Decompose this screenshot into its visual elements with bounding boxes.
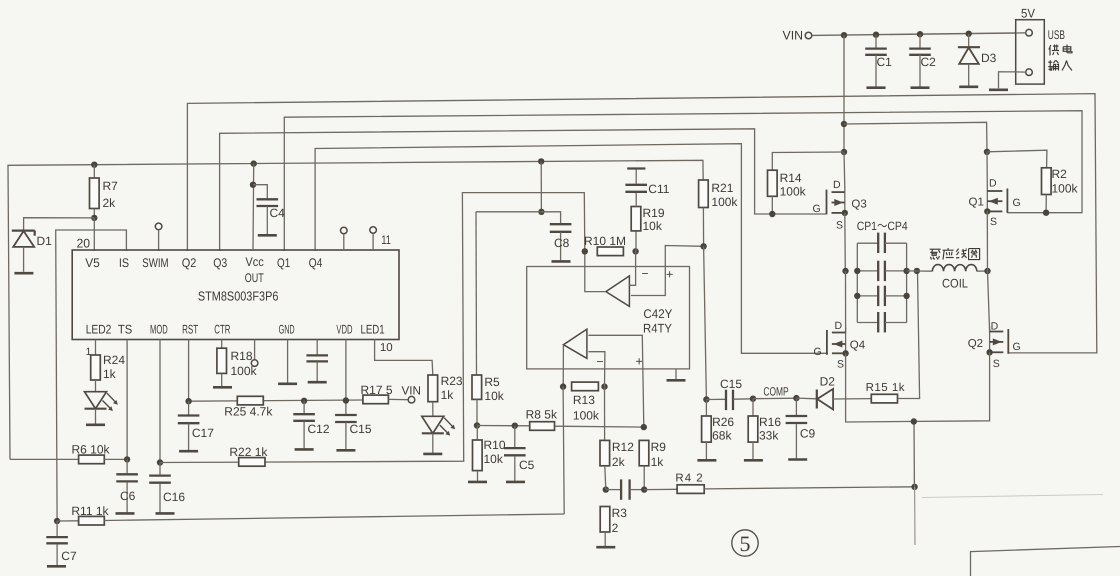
- wire V5 rail: [8, 160, 703, 459]
- wire S rail: [846, 352, 990, 422]
- wire: [104, 514, 564, 521]
- wire: [988, 271, 990, 332]
- svg-text:R2: R2: [1052, 167, 1068, 181]
- svg-text:R8 5k: R8 5k: [526, 408, 558, 422]
- svg-text:LED1: LED1: [361, 323, 385, 337]
- capacitor C15b: [706, 398, 726, 400]
- wire V5 pin: [93, 218, 95, 251]
- resistor R6: [10, 458, 79, 460]
- terminal pin: [254, 340, 256, 360]
- capacitor C15: [345, 401, 347, 415]
- svg-text:Q4: Q4: [309, 256, 323, 270]
- wire: [987, 270, 990, 272]
- capacitor C7: [56, 521, 58, 536]
- junction: [124, 456, 130, 462]
- svg-text:D: D: [991, 321, 999, 333]
- svg-text:20: 20: [77, 237, 91, 251]
- wire noninv2: [588, 335, 643, 427]
- junction: [632, 248, 638, 254]
- svg-text:C16: C16: [163, 490, 185, 504]
- junction: [641, 486, 647, 492]
- resistor R22: [239, 458, 265, 467]
- junction: [560, 383, 566, 389]
- wire VDD pin: [345, 340, 347, 401]
- wire: [772, 152, 844, 170]
- svg-text:RST: RST: [182, 323, 198, 337]
- junction: [841, 149, 847, 155]
- junction: [185, 398, 191, 404]
- junction: [91, 215, 97, 221]
- transistor Q1: [986, 186, 988, 211]
- junction: [538, 209, 544, 215]
- junction: [769, 211, 775, 217]
- svg-text:C5: C5: [519, 458, 535, 472]
- diode D3: [968, 34, 970, 47]
- svg-text:STM8S003F3P6: STM8S003F3P6: [198, 289, 279, 304]
- svg-text:+: +: [636, 355, 643, 369]
- resistor R5: [472, 375, 482, 399]
- wire cap bank right rail: [906, 243, 908, 322]
- diode D2: [796, 397, 816, 400]
- transistor Q2: [989, 327, 991, 353]
- junction: [512, 423, 518, 429]
- svg-text:1k: 1k: [651, 455, 665, 469]
- ground: [596, 546, 615, 549]
- svg-text:R10: R10: [484, 438, 506, 452]
- junction: [911, 484, 917, 490]
- ground: [258, 234, 277, 237]
- ground: [308, 381, 327, 384]
- capacitor C6: [126, 459, 128, 473]
- capacitor C17: [188, 401, 190, 414]
- svg-text:R9: R9: [651, 440, 667, 454]
- wire TS pin: [126, 340, 128, 460]
- capacitor C1: [875, 35, 877, 48]
- resistor R3: [600, 507, 610, 533]
- svg-text:C9: C9: [800, 427, 816, 441]
- pin terminal: [1026, 69, 1033, 76]
- junction: [54, 518, 60, 524]
- svg-text:OUT: OUT: [245, 271, 264, 285]
- wire: [432, 433, 434, 453]
- junction: [91, 162, 97, 168]
- svg-text:−: −: [642, 267, 649, 281]
- pin terminal: [1026, 29, 1033, 36]
- junction: [841, 32, 847, 38]
- wire frame corner: [971, 547, 1120, 576]
- wire: [843, 152, 846, 188]
- svg-text:VDD: VDD: [336, 323, 352, 337]
- label 供电: [1049, 45, 1059, 56]
- svg-text:100k: 100k: [711, 195, 738, 209]
- resistor R25: [237, 396, 263, 405]
- wire R25 rail: [189, 400, 363, 401]
- ground: [116, 512, 135, 515]
- wire R12 top: [604, 387, 606, 441]
- junction: [903, 293, 909, 299]
- wire: [95, 409, 97, 424]
- wire VIN rail: [812, 33, 1016, 35]
- ground: [468, 481, 487, 484]
- svg-text:R6 10k: R6 10k: [72, 443, 111, 457]
- svg-text:CP1～CP4: CP1～CP4: [857, 219, 908, 233]
- terminal pin: [341, 227, 348, 234]
- wire Q1 gate rail: [284, 111, 1082, 251]
- svg-text:TS: TS: [118, 323, 132, 337]
- svg-text:R5: R5: [484, 375, 500, 389]
- ground: [867, 86, 886, 89]
- svg-text:10k: 10k: [484, 452, 504, 466]
- capacitor C4: [253, 185, 267, 199]
- junction: [474, 422, 480, 428]
- junction: [966, 31, 972, 37]
- wire: [987, 150, 1047, 168]
- resistor R23: [428, 375, 438, 402]
- terminal VIN2: [408, 396, 415, 403]
- capacitor CP3: [857, 295, 878, 297]
- wire: [844, 213, 847, 271]
- junction: [703, 396, 709, 402]
- ground: [788, 458, 807, 461]
- terminal SWIM pin: [155, 223, 162, 230]
- ground: [156, 512, 175, 515]
- wire: [999, 72, 1016, 89]
- wire noninv input: [631, 246, 704, 296]
- diode D1 zener: [12, 230, 35, 232]
- svg-text:VIN: VIN: [783, 29, 804, 43]
- svg-text:R22 1k: R22 1k: [229, 445, 268, 459]
- resistor R15: [871, 394, 897, 403]
- label 感应线圈: [930, 249, 941, 259]
- wire faint: [922, 495, 1103, 498]
- junction: [343, 397, 349, 403]
- ground: [86, 423, 105, 426]
- junction: [157, 459, 163, 465]
- svg-text:R19: R19: [643, 206, 665, 220]
- svg-text:2k: 2k: [103, 196, 117, 210]
- ground: [697, 459, 716, 462]
- svg-text:10: 10: [380, 342, 393, 354]
- capacitor C8: [550, 223, 572, 225]
- svg-text:G: G: [814, 346, 822, 358]
- ground: [744, 459, 763, 462]
- wire: [986, 152, 988, 186]
- svg-text:MOD: MOD: [150, 323, 168, 337]
- wire IS pin: [56, 230, 127, 521]
- wire cap bank left rail: [856, 243, 858, 322]
- resistor R7: [93, 165, 95, 178]
- svg-text:100k: 100k: [780, 185, 807, 199]
- resistor R9: [639, 440, 649, 465]
- wire: [907, 270, 917, 272]
- capacitor C12: [303, 401, 305, 414]
- junction: [917, 31, 923, 37]
- ground: [959, 86, 978, 89]
- wire Q3 gate rail: [220, 129, 826, 251]
- wire: [845, 271, 847, 333]
- wire: [986, 211, 988, 271]
- inductor COIL: [917, 270, 933, 272]
- svg-text:Q1: Q1: [969, 197, 984, 209]
- resistor R19: [635, 231, 637, 251]
- ground: [911, 86, 930, 89]
- junction: [914, 268, 920, 274]
- op-amp U2B: [563, 329, 587, 358]
- junction: [842, 268, 848, 274]
- svg-text:S: S: [836, 220, 843, 232]
- svg-text:USB: USB: [1048, 28, 1065, 42]
- resistor R8: [530, 422, 555, 431]
- svg-text:C42Y: C42Y: [643, 307, 673, 321]
- resistor R17: [363, 395, 389, 404]
- junction: [841, 121, 847, 127]
- svg-text:R17 5: R17 5: [361, 383, 393, 397]
- wire: [704, 246, 707, 399]
- resistor R13: [572, 382, 599, 391]
- svg-text:R7: R7: [103, 179, 119, 193]
- svg-text:D: D: [989, 178, 997, 190]
- label circled 5: [732, 530, 758, 556]
- junction: [250, 182, 256, 188]
- junction: [854, 268, 860, 274]
- resistor R10a: [597, 247, 623, 256]
- svg-text:R10 1M: R10 1M: [584, 234, 626, 248]
- svg-text:Q2: Q2: [968, 338, 983, 350]
- svg-text:C6: C6: [120, 489, 136, 503]
- junction: [873, 32, 879, 38]
- capacitor C5: [514, 426, 516, 448]
- svg-text:2: 2: [612, 521, 619, 535]
- capacitor CP2: [857, 270, 878, 272]
- wire LED1 pin: [375, 340, 433, 376]
- capacitor C13: [606, 489, 621, 491]
- svg-text:11: 11: [381, 233, 391, 247]
- svg-text:−: −: [597, 355, 604, 369]
- svg-text:C1: C1: [877, 55, 893, 69]
- resistor R12: [600, 440, 610, 465]
- svg-text:C12: C12: [308, 422, 330, 436]
- ground: [47, 565, 66, 568]
- resistor R2: [1042, 168, 1052, 195]
- junction: [984, 268, 990, 274]
- svg-text:C8: C8: [554, 236, 570, 250]
- LED LED2: [85, 392, 107, 409]
- wire: [24, 218, 95, 231]
- svg-text:10k: 10k: [643, 219, 663, 233]
- wire MOD pin: [159, 340, 161, 463]
- svg-text:R3: R3: [612, 506, 628, 520]
- LED LED1: [422, 416, 444, 433]
- svg-text:Q4: Q4: [850, 340, 866, 352]
- svg-text:IS: IS: [119, 256, 129, 270]
- connector USB box: [1016, 20, 1045, 84]
- svg-text:COIL: COIL: [942, 277, 968, 291]
- wire GND pin: [287, 340, 289, 383]
- svg-text:LED2: LED2: [86, 323, 112, 337]
- wire C8 node: [540, 161, 542, 211]
- svg-text:R16: R16: [759, 415, 781, 429]
- wire: [605, 466, 606, 490]
- wire inv2: [588, 352, 605, 387]
- svg-text:G: G: [1013, 197, 1021, 209]
- svg-text:COMP: COMP: [763, 385, 788, 399]
- svg-text:R11 1k: R11 1k: [71, 504, 109, 518]
- svg-text:Q1: Q1: [277, 256, 290, 270]
- wire R8 rail: [477, 425, 530, 427]
- svg-text:V5: V5: [85, 256, 100, 270]
- junction: [601, 383, 607, 389]
- svg-text:R4TY: R4TY: [643, 322, 673, 336]
- transistor Q4: [845, 328, 847, 354]
- capacitor C11: [625, 184, 647, 186]
- ground: [14, 272, 33, 275]
- label 输入: [1048, 60, 1058, 71]
- capacitor C9: [795, 398, 797, 415]
- svg-text:D1: D1: [37, 234, 53, 248]
- wire: [898, 272, 920, 399]
- ground: [278, 382, 297, 385]
- ground: [423, 453, 442, 456]
- ground: [552, 260, 571, 263]
- wire R22 rail: [160, 193, 585, 463]
- resistor R4: [677, 485, 704, 494]
- junction: [700, 243, 706, 249]
- svg-text:CTR: CTR: [214, 323, 230, 337]
- svg-text:100k: 100k: [1052, 182, 1079, 196]
- svg-text:R21: R21: [711, 181, 733, 195]
- svg-text:Vcc: Vcc: [245, 255, 263, 269]
- transistor Q3: [844, 187, 846, 213]
- junction: [1043, 210, 1049, 216]
- wire opamp1 out: [585, 251, 606, 291]
- junction: [750, 396, 756, 402]
- wire: [476, 212, 561, 224]
- svg-text:10k: 10k: [484, 389, 504, 403]
- svg-text:R26: R26: [712, 415, 734, 429]
- ground: [989, 89, 1008, 92]
- junction: [582, 248, 588, 254]
- IC U1 STM8S003F3P6 body: [72, 250, 399, 340]
- wire R5 drop: [475, 212, 478, 375]
- svg-text:D3: D3: [981, 51, 997, 65]
- svg-text:2k: 2k: [612, 455, 626, 469]
- junction: [641, 424, 647, 430]
- svg-text:G: G: [1013, 341, 1021, 353]
- wire Vcc pin: [252, 164, 255, 251]
- svg-text:R14: R14: [780, 171, 802, 185]
- wire out to R11 rail: [563, 387, 564, 514]
- capacitor C16: [159, 463, 161, 475]
- ground: [179, 450, 198, 453]
- wire opamp2 out: [562, 345, 564, 387]
- wire Q4 gate rail: [315, 144, 828, 354]
- resistor R21: [699, 180, 709, 208]
- svg-text:S: S: [993, 358, 1000, 370]
- wire left leg: [843, 35, 845, 152]
- svg-text:+: +: [666, 268, 673, 282]
- resistor R18: [221, 340, 223, 349]
- ground: [336, 449, 355, 452]
- svg-text:Q2: Q2: [182, 256, 197, 270]
- svg-text:5V: 5V: [1021, 7, 1036, 21]
- ground: [675, 369, 677, 379]
- svg-text:G: G: [813, 203, 821, 215]
- svg-text:VIN: VIN: [402, 384, 422, 398]
- capacitor CP1: [857, 242, 878, 244]
- svg-text:C7: C7: [61, 549, 77, 563]
- junction: [301, 398, 307, 404]
- svg-text:D: D: [833, 179, 841, 191]
- resistor R14: [768, 170, 778, 196]
- junction: [903, 268, 909, 274]
- wire R11 rail: [57, 520, 79, 522]
- svg-text:S: S: [990, 216, 997, 228]
- terminal pin 11: [370, 227, 377, 234]
- svg-text:R13: R13: [573, 393, 595, 407]
- junction: [984, 149, 990, 155]
- capacitor: [316, 340, 318, 355]
- svg-text:GND: GND: [279, 323, 295, 337]
- wire: [914, 487, 916, 545]
- svg-text:100k: 100k: [573, 409, 600, 423]
- wire RST pin: [188, 340, 190, 402]
- svg-text:R12: R12: [612, 440, 634, 454]
- svg-text:R4 2: R4 2: [675, 473, 703, 485]
- terminal VIN: [805, 32, 812, 39]
- svg-text:C15: C15: [720, 377, 742, 391]
- svg-text:R18: R18: [231, 349, 253, 363]
- svg-text:Q3: Q3: [851, 199, 866, 211]
- svg-text:C4: C4: [270, 206, 286, 220]
- svg-text:33k: 33k: [759, 429, 779, 443]
- op-amp U2A: [606, 276, 630, 307]
- junction: [911, 418, 917, 424]
- svg-text:C11: C11: [648, 182, 669, 196]
- ground: [506, 481, 525, 484]
- svg-text:1k: 1k: [441, 388, 455, 402]
- svg-text:1k: 1k: [103, 367, 117, 381]
- svg-text:D2: D2: [820, 375, 836, 389]
- resistor R24: [95, 340, 97, 356]
- capacitor CP4: [857, 322, 878, 324]
- wire inv input: [629, 251, 635, 285]
- svg-text:S: S: [837, 359, 844, 371]
- svg-text:R25 4.7k: R25 4.7k: [224, 405, 273, 419]
- svg-text:5: 5: [740, 531, 751, 556]
- resistor R26: [705, 400, 707, 417]
- wire D node tie: [844, 122, 987, 152]
- svg-text:C2: C2: [921, 55, 937, 69]
- svg-text:C17: C17: [192, 426, 214, 440]
- wire: [913, 422, 915, 487]
- svg-text:D: D: [835, 320, 843, 332]
- junction: [854, 293, 860, 299]
- ground: [213, 386, 232, 389]
- junction: [603, 486, 609, 492]
- wire: [753, 397, 796, 400]
- resistor R11: [79, 516, 105, 525]
- wire Q2 gate rail: [187, 94, 1096, 353]
- svg-text:C15: C15: [350, 422, 372, 436]
- IC U2 comparator box: [527, 267, 690, 369]
- junction: [538, 158, 544, 164]
- svg-text:Q3: Q3: [213, 256, 227, 270]
- junction: [251, 160, 257, 166]
- wire R4 rail: [644, 488, 677, 490]
- capacitor C2: [919, 35, 921, 48]
- svg-text:68k: 68k: [712, 429, 732, 443]
- junction: [793, 395, 799, 401]
